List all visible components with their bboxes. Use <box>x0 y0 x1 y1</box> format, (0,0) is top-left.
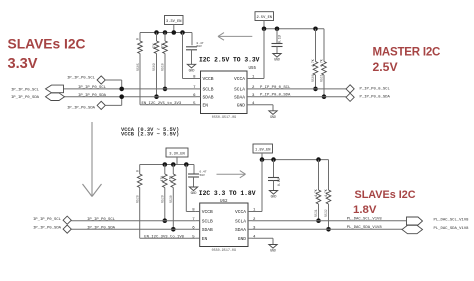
svg-text:0550-9517-09: 0550-9517-09 <box>212 249 236 253</box>
svg-text:P_IP_P0_0_SCL: P_IP_P0_0_SCL <box>360 87 391 91</box>
svg-text:VCCB: VCCB <box>203 76 214 82</box>
svg-text:0: 0 <box>135 170 139 172</box>
svg-text:U62: U62 <box>220 200 228 204</box>
svg-text:SDAB: SDAB <box>203 94 214 100</box>
svg-text:P_IP_P0_0_SCL: P_IP_P0_0_SCL <box>260 86 291 90</box>
svg-text:IP_IP_P0_SDA: IP_IP_P0_SDA <box>33 227 62 231</box>
svg-text:IP_IP_P0_SCL: IP_IP_P0_SCL <box>33 218 62 222</box>
svg-text:GND: GND <box>238 236 247 242</box>
svg-text:SDAA: SDAA <box>235 227 246 233</box>
svg-text:PL_DAC_SDA_V1V8: PL_DAC_SDA_V1V8 <box>347 226 383 230</box>
svg-text:VCCA: VCCA <box>234 76 245 82</box>
svg-text:0550-9517-09: 0550-9517-09 <box>212 116 236 120</box>
svg-text:SDAA: SDAA <box>234 94 245 100</box>
svg-text:EN: EN <box>203 102 209 108</box>
svg-text:50V: 50V <box>200 174 205 177</box>
svg-text:R529: R529 <box>160 195 164 203</box>
svg-text:SCLB: SCLB <box>202 218 213 224</box>
svg-text:IP_IP_P0_SDA: IP_IP_P0_SDA <box>78 94 107 98</box>
svg-text:PL_DAC_SCL_V1V8: PL_DAC_SCL_V1V8 <box>347 218 383 222</box>
svg-text:3.3V: 3.3V <box>8 56 38 72</box>
svg-text:R532: R532 <box>324 209 328 217</box>
svg-text:U55: U55 <box>249 67 257 71</box>
svg-text:VCCA: VCCA <box>235 209 246 215</box>
svg-text:PL_DAC_SDA_V1V8: PL_DAC_SDA_V1V8 <box>434 227 470 231</box>
svg-text:47K: 47K <box>169 176 173 182</box>
svg-text:0: 0 <box>136 38 140 40</box>
svg-text:SDAB: SDAB <box>202 227 213 233</box>
svg-text:IP_IP_P0_SCL: IP_IP_P0_SCL <box>11 88 40 92</box>
svg-text:I2C 3.3 TO 1.8V: I2C 3.3 TO 1.8V <box>199 190 256 197</box>
svg-text:MASTER I2C: MASTER I2C <box>373 47 441 59</box>
svg-text:IP_IP_P0_SDA: IP_IP_P0_SDA <box>87 226 116 230</box>
svg-text:GND: GND <box>274 58 280 62</box>
svg-text:R506: R506 <box>311 74 315 82</box>
svg-text:R531: R531 <box>314 209 318 217</box>
svg-text:3.3V_EN: 3.3V_EN <box>169 153 185 157</box>
svg-text:EN_I2C_3V3_to_1V8: EN_I2C_3V3_to_1V8 <box>144 235 184 239</box>
svg-text:GND: GND <box>271 195 277 199</box>
svg-text:4.7K: 4.7K <box>314 189 318 197</box>
svg-text:IP_IP_P0_SCL: IP_IP_P0_SCL <box>87 218 116 222</box>
svg-text:I2C 2.5V TO 3.3V: I2C 2.5V TO 3.3V <box>199 57 260 64</box>
svg-text:IP_IP_P0_SDA: IP_IP_P0_SDA <box>67 107 96 111</box>
svg-text:0.1U: 0.1U <box>278 35 282 43</box>
svg-text:1.8V: 1.8V <box>353 204 377 216</box>
svg-text:EN_I2C_2V5_to_3V3: EN_I2C_2V5_to_3V3 <box>142 102 182 106</box>
svg-text:0.47: 0.47 <box>200 170 207 173</box>
svg-text:GND: GND <box>237 102 246 108</box>
svg-text:R530: R530 <box>169 195 173 203</box>
svg-text:R511: R511 <box>320 74 324 82</box>
svg-text:47K: 47K <box>160 43 164 49</box>
svg-text:GND: GND <box>191 191 197 195</box>
svg-text:IP_IP_P0_SCL: IP_IP_P0_SCL <box>78 86 107 90</box>
svg-text:0.1U: 0.1U <box>277 178 281 186</box>
svg-text:SLAVEs I2C: SLAVEs I2C <box>8 37 86 52</box>
svg-text:4.7K: 4.7K <box>311 59 315 67</box>
svg-text:2.5V: 2.5V <box>373 60 399 74</box>
svg-text:50V: 50V <box>197 45 202 48</box>
svg-text:VCCB: VCCB <box>202 209 213 215</box>
svg-text:47K: 47K <box>152 43 156 49</box>
svg-text:IP_IP_P0_SDA: IP_IP_P0_SDA <box>11 96 40 100</box>
svg-text:SLAVEs I2C: SLAVEs I2C <box>355 189 416 201</box>
svg-text:GND: GND <box>189 69 195 73</box>
svg-text:SCLA: SCLA <box>234 87 245 93</box>
svg-text:SCLB: SCLB <box>203 87 214 93</box>
svg-text:3.3V_EN: 3.3V_EN <box>166 20 182 24</box>
svg-text:VCCB (2.3V ~ 5.5V): VCCB (2.3V ~ 5.5V) <box>121 132 179 138</box>
svg-text:4.7K: 4.7K <box>319 59 323 67</box>
svg-text:PL_DAC_SCL_V1V8: PL_DAC_SCL_V1V8 <box>434 218 470 222</box>
svg-text:R528: R528 <box>136 195 140 203</box>
svg-text:GND: GND <box>270 249 276 253</box>
svg-text:1.8V_EN: 1.8V_EN <box>255 149 271 153</box>
svg-text:R505: R505 <box>136 63 140 71</box>
svg-text:P_IP_P0_0_SDA: P_IP_P0_0_SDA <box>360 96 391 100</box>
svg-text:EN: EN <box>202 236 208 242</box>
svg-text:IP_IP_P0_SCL: IP_IP_P0_SCL <box>67 77 96 81</box>
svg-text:SCLA: SCLA <box>235 218 246 224</box>
svg-text:47K: 47K <box>160 176 164 182</box>
svg-text:R510: R510 <box>161 63 165 71</box>
svg-text:4.7K: 4.7K <box>324 189 328 197</box>
svg-text:GND: GND <box>270 115 276 119</box>
svg-text:P_IP_P0_0_SDA: P_IP_P0_0_SDA <box>260 94 291 98</box>
svg-text:R509: R509 <box>152 63 156 71</box>
svg-text:2.5V_EN: 2.5V_EN <box>257 16 273 20</box>
